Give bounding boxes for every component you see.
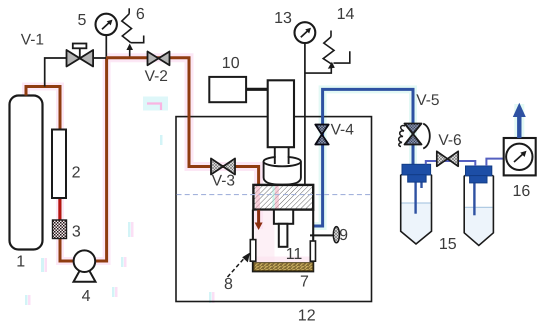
artifact cyan box near box12 corner — [143, 97, 168, 111]
gauge 13 — [295, 22, 316, 43]
red segment between column 2 and filter 3 — [58, 198, 61, 220]
vessel interior pink tint — [255, 211, 275, 265]
svg-text:12: 12 — [298, 308, 316, 325]
svg-text:2: 2 — [72, 164, 81, 181]
svg-text:14: 14 — [337, 6, 355, 23]
artifact stripes on lid — [255, 186, 260, 209]
pressure cell hatched lid 7 — [253, 185, 313, 210]
connector box10 to motor — [246, 88, 268, 91]
wire black cylinder branch to V-1 and to junction — [45, 58, 108, 87]
piston rod narrow — [279, 224, 288, 247]
vessel A cap — [402, 164, 431, 182]
stirrer motor column — [268, 80, 294, 147]
vessel B dip tube — [473, 181, 475, 215]
bleed valve 9 — [333, 227, 339, 243]
vessel A dip tube — [414, 180, 416, 214]
svg-text:15: 15 — [439, 236, 457, 253]
valve V-3 — [211, 159, 235, 175]
right fitting on vessel — [310, 241, 315, 261]
gauge 13 stem — [304, 43, 306, 185]
svg-text:6: 6 — [136, 6, 145, 23]
svg-text:V-6: V-6 — [438, 132, 461, 149]
cyan halo under vent arrow — [514, 104, 524, 138]
membrane 7 — [254, 263, 313, 271]
valve V-2 — [148, 52, 170, 66]
vent arrow — [513, 103, 526, 138]
pump 4 — [74, 250, 96, 281]
gas cylinder 1 — [10, 96, 43, 250]
wire to bleed valve 9 — [310, 234, 333, 236]
cyan halo under blue CO2 line — [314, 89, 413, 226]
dashed water level line — [177, 194, 372, 196]
svg-text:9: 9 — [339, 227, 348, 244]
column 2 — [52, 130, 66, 199]
dashed pointer 8 — [228, 253, 251, 278]
collection vessel A tube — [401, 175, 432, 244]
back-pressure regulator 6 — [122, 8, 144, 56]
filter 3 — [53, 220, 67, 239]
svg-text:16: 16 — [513, 183, 531, 200]
back-pressure regulator 14 — [305, 31, 350, 74]
svg-text:13: 13 — [274, 10, 292, 27]
svg-text:10: 10 — [222, 55, 240, 72]
svg-text:V-3: V-3 — [212, 173, 235, 190]
collection vessel B liquid — [465, 207, 493, 244]
stirrer shaft — [275, 147, 289, 164]
svg-text:4: 4 — [82, 288, 91, 305]
gauge 5 — [96, 14, 117, 58]
beaker head — [264, 157, 301, 185]
flowmeter 16 — [504, 138, 536, 175]
vessel B cap — [466, 166, 492, 183]
collection vessel B tube — [464, 176, 493, 246]
svg-text:V-1: V-1 — [21, 31, 44, 48]
svg-text:7: 7 — [300, 274, 309, 291]
piston rod wide — [274, 210, 293, 224]
pink halo under brown high pressure line — [106, 58, 259, 229]
collection vessel A liquid — [402, 203, 431, 243]
svg-text:1: 1 — [16, 253, 25, 270]
wire vessel A to V-6 to vessel B — [426, 161, 476, 166]
valve V-6 — [437, 151, 458, 166]
svg-text:5: 5 — [78, 12, 87, 29]
water bath box 12 — [176, 117, 372, 302]
left fitting on vessel — [250, 240, 256, 262]
valve V-4 — [315, 125, 328, 145]
wire brown high-pressure line junction to cell — [106, 58, 259, 186]
svg-text:3: 3 — [72, 223, 81, 240]
svg-text:11: 11 — [286, 246, 303, 263]
metering valve V-5 — [399, 124, 430, 149]
pink halo under brown supply line (cylinder to junction) — [26, 58, 107, 261]
wire vessel B to flowmeter — [486, 159, 503, 166]
wire blue CO2 line — [314, 89, 413, 226]
svg-text:V-5: V-5 — [416, 92, 439, 109]
controller box 10 — [209, 77, 246, 102]
wire brown supply: cylinder to pump and pump to junction — [26, 87, 78, 262]
brown inlet arrow into vessel — [255, 210, 263, 230]
svg-text:V-4: V-4 — [331, 121, 355, 138]
svg-text:V-2: V-2 — [145, 68, 168, 85]
svg-text:8: 8 — [224, 276, 233, 293]
valve V-1 with actuator — [67, 44, 94, 67]
artifact ticks — [25, 135, 215, 305]
vessel 11 walls — [253, 210, 313, 272]
